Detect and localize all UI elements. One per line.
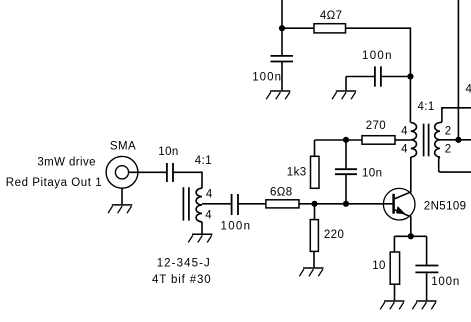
transformer T2 secondary winding [435,123,440,157]
svg-text:SMA: SMA [110,141,136,153]
svg-text:Red Pitaya Out 1: Red Pitaya Out 1 [6,177,102,189]
wire rail 1k3 top to 270 [315,139,363,141]
wire T2 secondary tap to right edge [440,139,471,141]
transistor Q1 emitter arrow [396,206,406,214]
wire C2 to 6R8 [238,203,266,205]
svg-text:4: 4 [401,126,408,138]
resistor R 10 [390,252,399,284]
transformer T1 winding [196,188,202,222]
svg-text:4Ω7: 4Ω7 [320,10,343,22]
svg-text:2: 2 [445,126,452,138]
wire 4R7 to corner down to transformer T2 primary [346,28,411,122]
svg-text:2: 2 [445,144,452,156]
capacitor C1 10n plates [167,163,173,182]
svg-text:4: 4 [466,84,471,96]
svg-text:10n: 10n [362,167,382,179]
ground symbols [108,91,437,309]
wire cap to ground G4 [281,62,283,91]
node supply left [279,25,285,31]
svg-text:4: 4 [401,144,408,156]
wire output vertical right [457,0,459,140]
wire supply to 4R7 [282,27,314,29]
svg-text:220: 220 [324,229,344,241]
transistor Q1 2N5109 [383,188,415,220]
svg-text:4: 4 [205,210,212,222]
capacitor C6 100n plates [415,266,438,273]
svg-text:1k3: 1k3 [287,166,307,178]
capacitor C_100n top-middle plates [375,66,381,86]
node base right [343,201,349,207]
svg-text:270: 270 [366,120,386,132]
svg-text:3mW drive: 3mW drive [37,157,96,169]
svg-text:2N5109: 2N5109 [424,201,467,213]
ground G7 100n bottom [412,301,436,309]
SMA connector J1 [106,156,138,188]
transistor Q1 collector wire [395,157,411,199]
wire 1k3 top [314,140,316,156]
svg-text:10n: 10n [158,146,178,158]
node rail 10n [343,137,349,143]
wire T2 secondary top bracket [440,108,471,123]
wire cap to supply node [381,76,411,78]
wire 6R8 to transistor base [299,203,392,205]
wire emitter bracket [394,236,426,252]
ground G1 SMA [108,205,132,213]
wire C1 to T1 top [173,172,202,188]
transformer T1 core [183,187,189,220]
node base left [311,201,317,207]
wire 10R bottom to ground [394,284,396,300]
svg-text:12-345-J: 12-345-J [157,258,211,270]
svg-text:6Ω8: 6Ω8 [270,186,293,198]
wire C6 to ground [426,273,428,300]
ground G5 100n top-middle [332,91,356,99]
node dots [279,25,462,239]
transformer T2 primary winding [411,123,417,157]
resistor R 1k3 [311,156,320,188]
svg-text:4:1: 4:1 [195,155,212,167]
svg-text:4T bif #30: 4T bif #30 [152,274,211,286]
wire supply vertical left [281,0,283,56]
capacitor C_100n top-left plates [271,56,294,62]
wire 220 to ground [313,251,315,267]
ground G3 220 [299,268,323,276]
wire T1 tap to C2 [202,203,231,205]
ground G2 T1 [188,234,212,242]
ground G6 10R [380,301,404,309]
resistor R 4R7 [266,24,400,285]
wire bracket to C6 [426,236,428,265]
resistor R 270 [362,136,395,145]
capacitor C2 100n plates [232,194,238,215]
wire cap to ground stem G5 [346,77,375,91]
resistor R 6R8 [266,200,299,208]
svg-text:10: 10 [372,260,386,272]
svg-text:100n: 100n [252,71,282,83]
svg-text:4:1: 4:1 [418,101,435,113]
wire T1 bottom to ground [201,222,203,234]
ground G4 100n top-left [266,91,290,99]
svg-text:100n: 100n [431,276,460,288]
wire SMA to C1 [129,171,166,173]
wire 10n cap bottom [345,175,347,204]
resistor R 220 [310,220,318,252]
node supply right [407,73,413,79]
wire node down to 220 [314,204,316,220]
node output [455,137,461,143]
node emitter [408,233,414,239]
wire 270 to T2 primary tap [395,139,411,141]
svg-text:100n: 100n [221,220,252,232]
transistor Q1 emitter wire [395,210,411,237]
SMA stem to ground [121,188,123,204]
transformer T2 core [424,124,429,157]
wire T2 secondary bottom bracket [439,157,471,172]
svg-text:100n: 100n [362,50,393,62]
svg-text:4: 4 [206,189,213,201]
capacitor C_10n mid plates [335,169,357,174]
wire 10n cap top [345,140,347,168]
